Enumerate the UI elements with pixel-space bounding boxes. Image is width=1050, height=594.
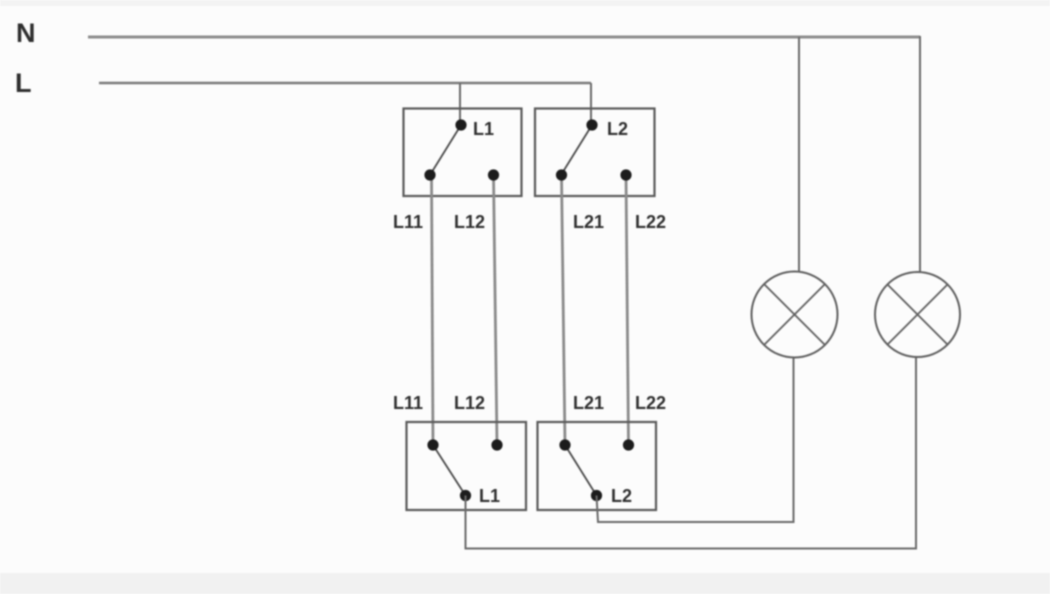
- svg-text:L1: L1: [473, 119, 494, 139]
- wire L12 (S1 right to S3 right): [494, 175, 498, 445]
- switch S3 terminal L11: [427, 439, 438, 450]
- switch S4 box: [538, 422, 657, 510]
- switch S1 common terminal: [455, 119, 466, 130]
- switch S4 common terminal: [591, 490, 602, 501]
- svg-text:L2: L2: [607, 119, 628, 139]
- switch S1 lever: [430, 125, 461, 175]
- switch S2 common terminal: [586, 119, 597, 130]
- switch S3 lever: [433, 445, 466, 496]
- switch S4 lever: [565, 445, 597, 496]
- switch S2 box: [535, 109, 655, 197]
- wire N to lamp E2 top: [919, 36, 921, 272]
- lamp E2: [875, 272, 960, 357]
- wire N to lamp E1 top: [798, 37, 800, 272]
- svg-text:L2: L2: [611, 486, 632, 506]
- switch S2 terminal L21: [556, 169, 567, 180]
- switch S4 terminal L22: [623, 439, 634, 450]
- svg-text:L22: L22: [635, 393, 666, 413]
- switch S1 terminal L11: [424, 169, 435, 180]
- wire N bus: [88, 36, 920, 39]
- switch S2 lever: [561, 125, 592, 175]
- wire L22 (S2 right to S4 right): [626, 175, 629, 445]
- wire L drop to switch S1 common: [459, 83, 461, 125]
- wire S4 common to lamp E1 bottom: [597, 357, 794, 522]
- switch S3 box: [407, 422, 527, 510]
- svg-text:L1: L1: [479, 486, 500, 506]
- switch S3 common terminal: [460, 490, 471, 501]
- wire L bus: [99, 82, 591, 85]
- svg-text:L12: L12: [454, 393, 485, 413]
- svg-text:L12: L12: [454, 212, 485, 232]
- switch S1 box: [404, 109, 522, 197]
- svg-text:L: L: [15, 68, 32, 98]
- switch S1 terminal L12: [488, 169, 499, 180]
- wire L21 (S2 left to S4 left): [562, 175, 566, 445]
- switch S3 terminal L12: [491, 439, 502, 450]
- svg-text:L11: L11: [393, 212, 423, 232]
- lamp E1: [752, 272, 838, 358]
- switch S4 terminal L21: [559, 439, 570, 450]
- svg-text:N: N: [16, 18, 36, 48]
- svg-text:L21: L21: [573, 393, 604, 413]
- switch S2 terminal L22: [620, 169, 631, 180]
- wire S3 common to lamp E2 bottom: [466, 357, 917, 549]
- wire L11 (S1 left to S3 left): [432, 175, 434, 445]
- wire L drop to switch S2 common: [590, 83, 592, 125]
- svg-text:L22: L22: [635, 212, 666, 232]
- svg-text:L21: L21: [573, 212, 604, 232]
- svg-text:L11: L11: [393, 393, 423, 413]
